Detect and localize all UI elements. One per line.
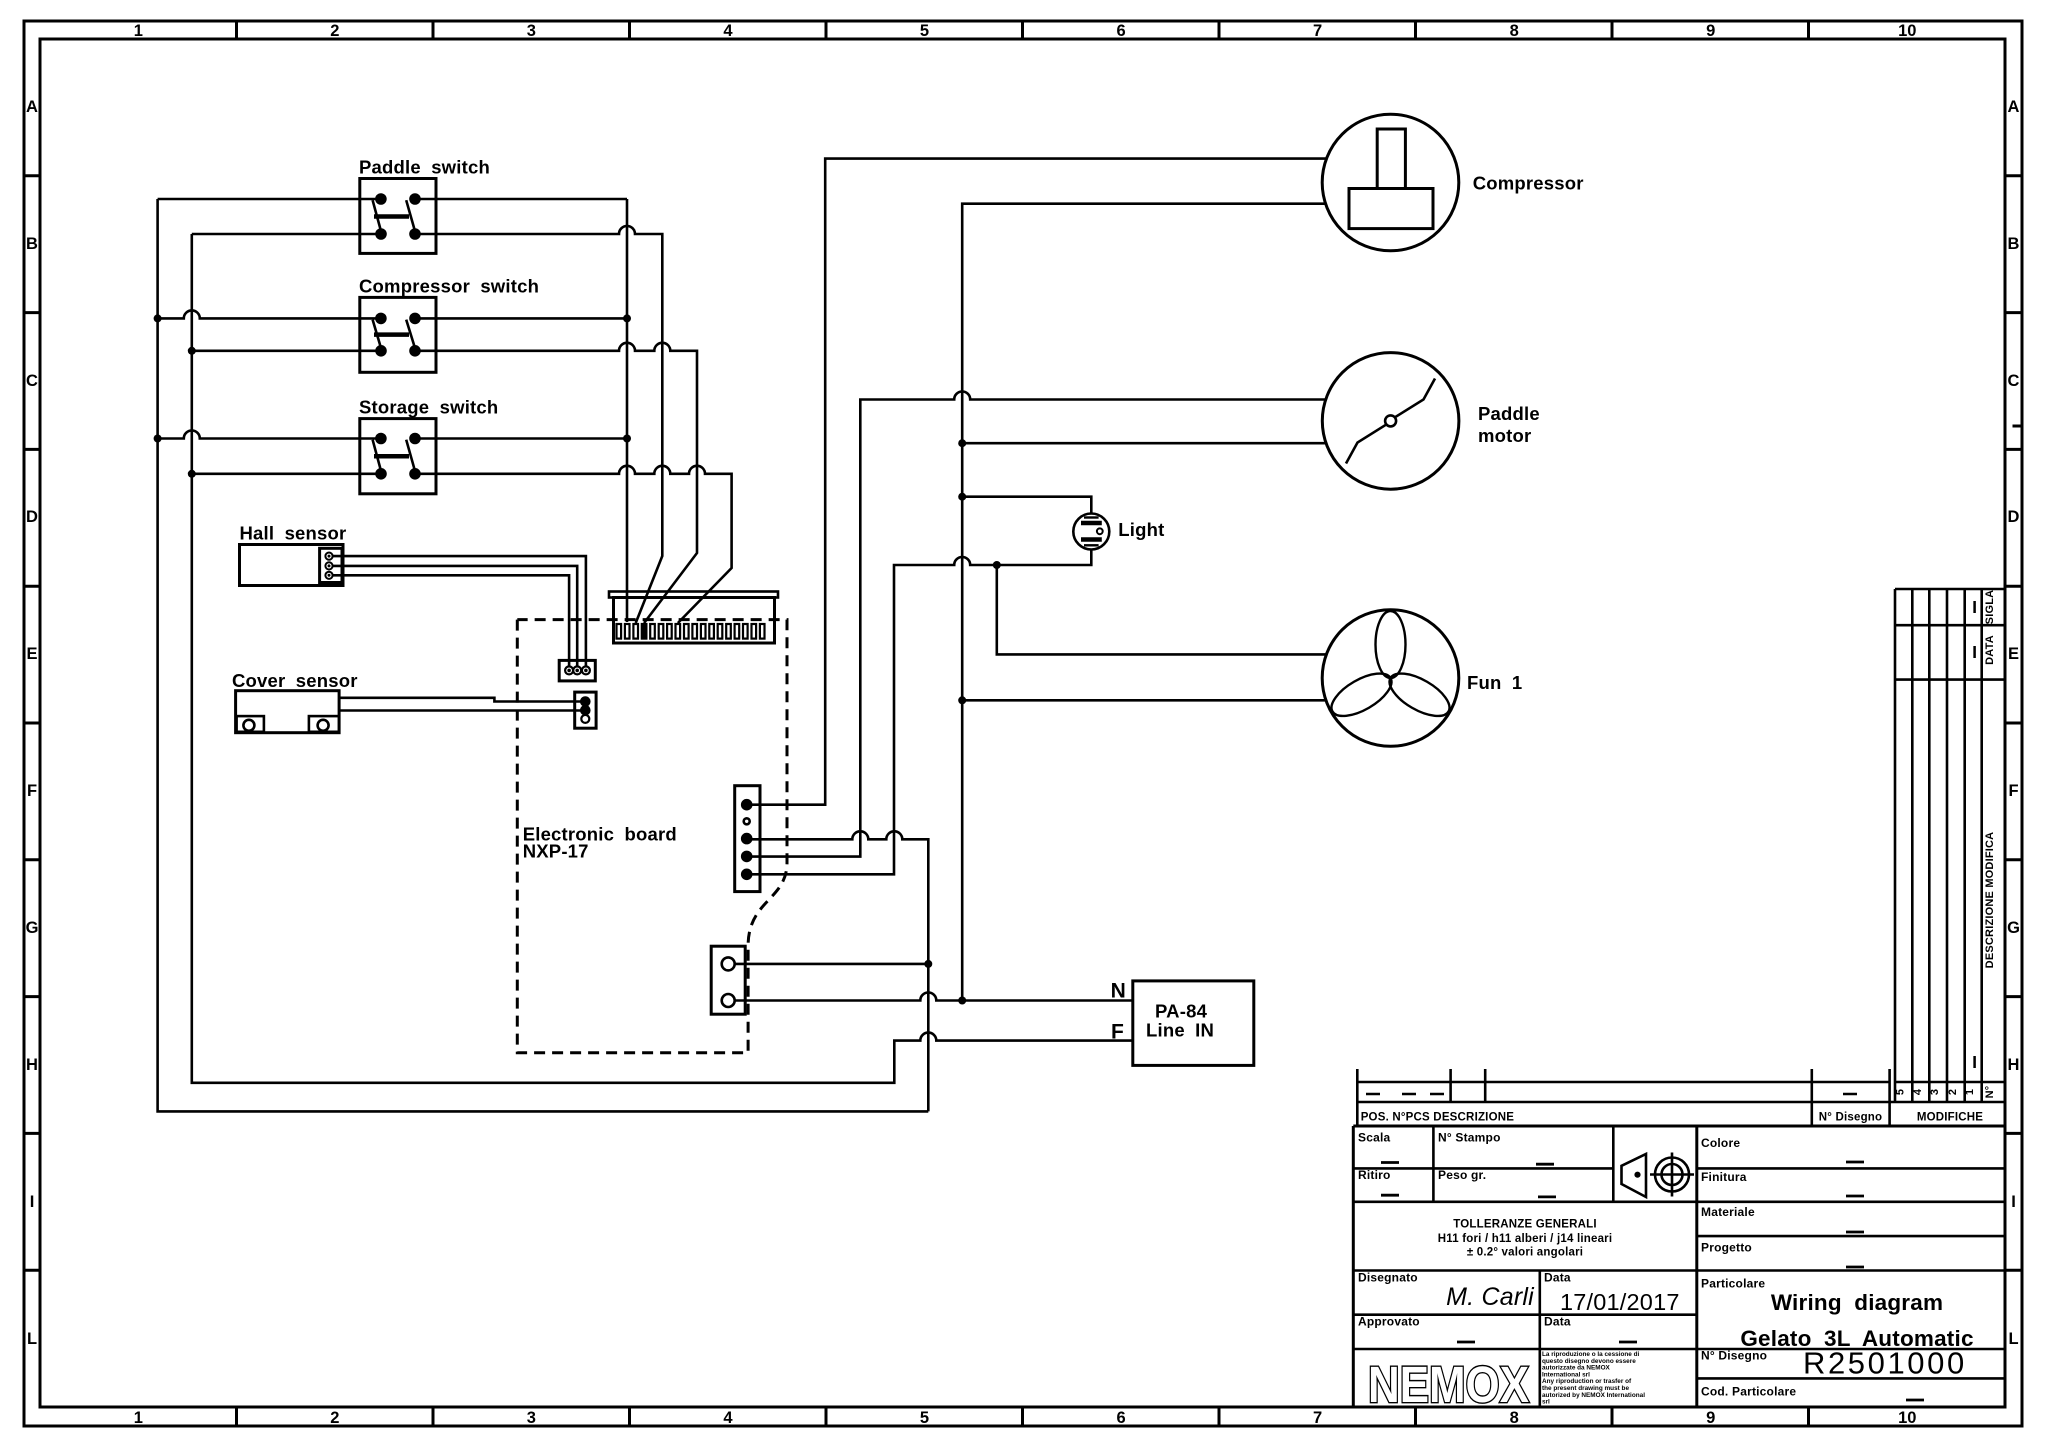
svg-text:10: 10 (1898, 1409, 1916, 1427)
wire: light return from board pin5 up and right, hop over x962 (751, 550, 1091, 875)
compressor motor M1 (1322, 114, 1459, 251)
svg-text:Line IN: Line IN (1146, 1020, 1214, 1041)
svg-text:3: 3 (527, 22, 536, 40)
svg-text:Paddle switch: Paddle switch (359, 156, 490, 177)
svg-text:6: 6 (1117, 1409, 1126, 1427)
wire: paddle switch bottom left (192, 233, 381, 236)
svg-text:R2501000: R2501000 (1803, 1346, 1967, 1381)
svg-text:2: 2 (330, 1409, 339, 1427)
svg-text:Paddle: Paddle (1478, 403, 1540, 424)
wire: board pin3 line from connector area down to bottom bus, hops over 860/894 verticals (751, 831, 928, 1111)
board output connector CN4 (735, 786, 760, 892)
wire: hall sensor signal 2 (333, 566, 578, 667)
svg-text:Progetto: Progetto (1701, 1241, 1752, 1255)
svg-text:10: 10 (1898, 22, 1916, 40)
fan motor M3 Fun 1 (1322, 610, 1459, 747)
title block frame (1353, 1126, 2005, 1407)
wire: compressor return line from motor down the x962 vertical to N node (962, 204, 1326, 1001)
svg-text:17/01/2017: 17/01/2017 (1560, 1289, 1680, 1315)
light L1 (1073, 514, 1109, 550)
revision history table (1357, 1069, 2005, 1126)
svg-text:E: E (2008, 645, 2019, 663)
disclaimer small text (1542, 1351, 1645, 1406)
svg-text:5: 5 (920, 1409, 929, 1427)
svg-text:L: L (2008, 1330, 2018, 1348)
svg-text:9: 9 (1706, 22, 1715, 40)
svg-text:Colore: Colore (1701, 1136, 1740, 1150)
wire: paddle switch bottom right, hop over v1, down to connector pin 3 (415, 226, 662, 623)
svg-text:Data: Data (1544, 1271, 1571, 1285)
wire: cover sensor cable bottom line (339, 709, 581, 712)
wire: paddle switch top left (158, 198, 381, 201)
wire: cover sensor cable top line (339, 698, 581, 702)
svg-text:DESCRIZIONE MODIFICA: DESCRIZIONE MODIFICA (1984, 832, 1996, 969)
PA-84 line in box (1133, 981, 1254, 1066)
main board connector CN1 (609, 592, 778, 644)
svg-text:5: 5 (920, 22, 929, 40)
svg-text:Ritiro: Ritiro (1358, 1168, 1391, 1182)
svg-text:2: 2 (330, 22, 339, 40)
svg-text:M. Carli: M. Carli (1446, 1283, 1535, 1311)
wire: line bus left outer vertical + bottom run to board (158, 199, 929, 1111)
svg-text:B: B (26, 235, 38, 253)
svg-text:Cover sensor: Cover sensor (232, 670, 358, 691)
wire: neutral bus left inner vertical + bottom run + F line to PA-84 (192, 234, 1133, 1083)
svg-text:Light: Light (1118, 519, 1164, 540)
svg-text:F: F (27, 782, 37, 800)
board line-in terminal CN5 (711, 946, 745, 1014)
hall sensor (240, 545, 344, 586)
wire: N line from relay bottom terminal to PA-84, hop over pin3 line (735, 993, 1133, 1001)
wire: cover relay top terminal to pin3 line (735, 963, 929, 966)
svg-text:4: 4 (723, 22, 733, 40)
svg-text:srl: srl (1542, 1399, 1550, 1406)
wire: paddle motor return to x962 vertical (962, 442, 1326, 445)
paddle switch S1 (360, 179, 436, 254)
svg-text:Compressor: Compressor (1473, 172, 1584, 193)
svg-text:9: 9 (1706, 1409, 1715, 1427)
svg-text:Approvato: Approvato (1358, 1315, 1420, 1329)
title block placeholder dashes (1381, 1162, 1924, 1400)
wire: storage switch top right joining v1 (415, 437, 627, 440)
svg-text:I: I (2011, 1193, 2016, 1211)
svg-text:NXP-17: NXP-17 (523, 841, 589, 862)
svg-text:1: 1 (1964, 1089, 1976, 1095)
wire: compressor line from board pin1 up and right to compressor motor (751, 159, 1326, 805)
svg-text:MODIFICHE: MODIFICHE (1917, 1112, 1983, 1124)
svg-text:8: 8 (1510, 22, 1519, 40)
svg-text:Hall sensor: Hall sensor (240, 523, 347, 544)
svg-text:Scala: Scala (1358, 1131, 1390, 1145)
wire: hall sensor signal 1 (333, 556, 586, 666)
wire: storage switch top left, hop over neutral bus (158, 431, 381, 439)
svg-text:N: N (1111, 980, 1126, 1003)
svg-text:SIGLA: SIGLA (1984, 590, 1996, 625)
compressor switch S2 (360, 297, 436, 372)
cover sensor connector CN3 (575, 692, 596, 728)
svg-text:L: L (27, 1330, 37, 1348)
svg-text:DATA: DATA (1984, 635, 1996, 665)
svg-text:motor: motor (1478, 425, 1531, 446)
svg-text:G: G (26, 919, 39, 937)
wire: paddle motor line from board pin4 up and right, hop over x962 (751, 392, 1326, 857)
electronic board NXP-17 dashed boundary (517, 620, 787, 1053)
svg-text:NEMOX: NEMOX (1368, 1356, 1529, 1413)
svg-text:3: 3 (1929, 1089, 1941, 1095)
svg-text:POS. N°PCS DESCRIZIONE: POS. N°PCS DESCRIZIONE (1361, 1112, 1515, 1124)
svg-text:Peso gr.: Peso gr. (1438, 1168, 1486, 1182)
svg-text:2: 2 (1947, 1089, 1959, 1095)
modifiche revision strip (1895, 589, 2005, 1102)
wire: compressor switch top left, hop over neutral bus (158, 310, 381, 318)
svg-text:D: D (2008, 508, 2020, 526)
svg-text:Storage switch: Storage switch (359, 396, 498, 417)
svg-text:3: 3 (527, 1409, 536, 1427)
svg-text:H: H (26, 1056, 38, 1074)
first angle projection symbol (1622, 1153, 1695, 1198)
svg-text:7: 7 (1313, 1409, 1322, 1427)
svg-text:F: F (2008, 782, 2018, 800)
svg-text:C: C (2008, 372, 2020, 390)
svg-text:PA-84: PA-84 (1155, 1001, 1208, 1022)
svg-text:autorized by NEMOX Internation: autorized by NEMOX International (1542, 1392, 1645, 1399)
svg-text:C: C (26, 372, 38, 390)
wire: compressor switch bottom left (192, 349, 381, 352)
svg-text:F: F (1111, 1021, 1124, 1044)
wire: paddle switch top right to connector vertical v1 (415, 198, 627, 201)
svg-text:D: D (26, 508, 38, 526)
svg-text:N° Disegno: N° Disegno (1819, 1112, 1882, 1124)
svg-text:Finitura: Finitura (1701, 1170, 1747, 1184)
svg-text:5: 5 (1895, 1089, 1907, 1095)
svg-text:N° Stampo: N° Stampo (1438, 1131, 1501, 1145)
wire: compressor switch top right joining v1 (415, 317, 627, 320)
svg-text:A: A (26, 98, 38, 116)
svg-text:G: G (2007, 919, 2020, 937)
svg-text:Particolare: Particolare (1701, 1277, 1765, 1291)
svg-text:N°: N° (1984, 1086, 1996, 1099)
svg-text:± 0.2° valori angolari: ± 0.2° valori angolari (1467, 1247, 1583, 1259)
svg-text:H11 fori / h11 alberi / j14 li: H11 fori / h11 alberi / j14 lineari (1438, 1233, 1612, 1245)
svg-text:Disegnato: Disegnato (1358, 1271, 1418, 1285)
connector CN1 pins (617, 624, 765, 639)
svg-text:4: 4 (1912, 1088, 1924, 1095)
wire: compressor switch bottom right, hops over v1 v2, down to connector pin 4 (415, 343, 697, 623)
svg-text:TOLLERANZE GENERALI: TOLLERANZE GENERALI (1453, 1219, 1597, 1231)
svg-text:Cod. Particolare: Cod. Particolare (1701, 1385, 1796, 1399)
svg-text:H: H (2008, 1056, 2020, 1074)
svg-text:Fun 1: Fun 1 (1467, 672, 1522, 693)
svg-text:6: 6 (1117, 22, 1126, 40)
wire: storage switch bottom left (192, 472, 381, 475)
svg-text:7: 7 (1313, 22, 1322, 40)
cover sensor (236, 691, 340, 733)
svg-text:B: B (2008, 235, 2020, 253)
wire: v1 vertical to connector pin 2 (626, 199, 629, 622)
wire: hall sensor signal 3 (333, 575, 569, 666)
svg-text:Materiale: Materiale (1701, 1205, 1755, 1219)
svg-text:I: I (30, 1193, 35, 1211)
svg-text:4: 4 (723, 1409, 733, 1427)
paddle motor M2 (1322, 353, 1459, 490)
svg-text:E: E (26, 645, 37, 663)
svg-text:Wiring diagram: Wiring diagram (1771, 1290, 1943, 1315)
modifiche strip rotated labels (1895, 590, 1996, 1099)
svg-text:Compressor switch: Compressor switch (359, 275, 539, 296)
storage switch S3 (360, 419, 436, 494)
svg-text:A: A (2008, 98, 2020, 116)
hall sensor connector CN2 (559, 660, 595, 681)
wire: light feed from x962 vertical (962, 497, 1091, 514)
svg-text:Data: Data (1544, 1315, 1571, 1329)
wire: fan feed from light return node down and right (997, 565, 1326, 654)
svg-text:1: 1 (134, 22, 143, 40)
wire: storage switch bottom right, hops over v1 v2 v3, down to connector pin 8 (415, 466, 732, 623)
wire: fan return to x962 vertical (962, 699, 1326, 702)
svg-text:1: 1 (134, 1409, 143, 1427)
junction dots (154, 314, 1001, 1004)
